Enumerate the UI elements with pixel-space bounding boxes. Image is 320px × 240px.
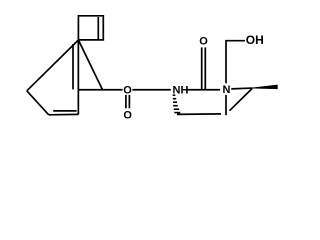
svg-text:OH: OH [246, 33, 264, 47]
urea C=O double bond [201, 47, 203, 89]
bond CH to ester oxygen [78, 89, 122, 91]
cyclobutene ring [78, 16, 103, 40]
svg-text:O: O [199, 35, 208, 47]
ring bottom double bond main line [49, 113, 79, 115]
ring bottom double bond inner line [53, 110, 76, 112]
bond bridgehead to left apex [27, 40, 79, 91]
svg-text:N: N [223, 84, 231, 96]
bond left apex to bottom-left vertex [27, 91, 49, 115]
ester C=O double bond [125, 95, 127, 108]
bond N down [225, 95, 227, 115]
hashed wedge bond below NH [173, 95, 181, 112]
svg-text:O: O [123, 85, 132, 97]
short vertical bond [72, 44, 74, 89]
long vertical bond bridgehead to bottom-right vertex [77, 40, 79, 114]
svg-text:NH: NH [173, 85, 189, 97]
imidazolidinone ring bottom bond [177, 113, 221, 116]
bond bridgehead to CH vertex [78, 40, 102, 90]
solid wedge bond to methyl [253, 85, 278, 90]
bond NH to carbonyl C to N [188, 89, 221, 91]
svg-text:O: O [123, 110, 132, 122]
cyclobutene double bond inner line [97, 17, 99, 39]
diagonal bond from methyl carbon down-left [230, 89, 253, 111]
bond ester O to NH [132, 89, 170, 91]
bond N to methyl-bearing carbon [231, 87, 252, 90]
bond N up to CH2 corner and to OH [226, 41, 245, 83]
